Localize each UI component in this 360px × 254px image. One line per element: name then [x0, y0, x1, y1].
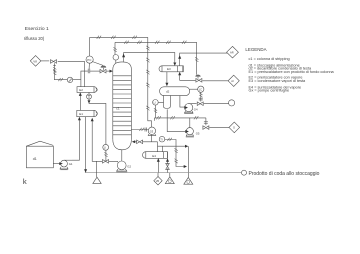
wire line B drop to CW valve — [196, 42, 198, 74]
drain triangle feed area — [93, 177, 193, 184]
tank d1 — [26, 141, 53, 168]
wire E4 riser to steam line — [157, 142, 159, 152]
svg-text:riflusso 20): riflusso 20) — [24, 36, 45, 41]
arrow CW return up — [178, 55, 181, 59]
arrow second riser into E4 — [166, 158, 169, 162]
diamond V8 — [30, 56, 41, 67]
arrow vapor into E3 — [173, 63, 176, 66]
wire V8 branch down — [54, 63, 67, 79]
slash V8 branch 1b — [53, 71, 56, 75]
wire column bottom to G2 — [121, 150, 123, 161]
svg-text:d1: d1 — [33, 157, 37, 161]
wire CW return E3 to AR diamond — [180, 53, 228, 66]
arrow condensate corner — [185, 145, 188, 148]
svg-text:G3: G3 — [150, 129, 154, 133]
diamond AI cooling water — [228, 75, 239, 86]
slash drop 5 — [146, 106, 149, 110]
wire boot to G5 suction — [167, 109, 186, 131]
svg-text:LI: LI — [104, 146, 106, 149]
pump G4 — [184, 104, 193, 114]
wire drain branch feed — [96, 161, 98, 177]
wire d2 to LC — [190, 88, 198, 90]
valve top product — [197, 102, 203, 106]
wire valve to G diamond — [209, 127, 229, 129]
valve steam line — [137, 140, 143, 144]
svg-text:G2: G2 — [127, 164, 131, 168]
arrow TI signal end — [184, 165, 187, 168]
slash line B 1 — [124, 41, 128, 44]
arrow steam into column — [132, 140, 135, 143]
wire header drop to valve — [205, 118, 207, 125]
svg-text:AI: AI — [231, 79, 234, 83]
svg-text:E2: E2 — [79, 88, 83, 92]
wire G3 suction from column — [131, 129, 148, 131]
slash header 1 — [156, 116, 160, 119]
control valve feed — [100, 69, 106, 73]
wire header y118 — [154, 117, 206, 119]
wire signal line A — [90, 36, 148, 38]
wire valve to E1 riser — [92, 121, 102, 161]
arrow trap down — [88, 100, 91, 103]
wire G2 discharge — [109, 160, 118, 163]
slash TI drop 1 — [175, 148, 178, 152]
wire LC drop — [200, 92, 202, 101]
slash G3 suction — [139, 128, 143, 131]
wire G1 discharge to E1 — [72, 120, 79, 161]
instrument LI boot — [153, 100, 164, 106]
slash LI drop — [104, 152, 107, 156]
wire PC down to orifice — [88, 63, 90, 69]
exchanger E2 — [77, 87, 97, 93]
wire E1 to E2 feed riser — [79, 95, 81, 110]
decanter d2 — [160, 87, 190, 109]
slash LC drop — [199, 93, 202, 97]
wire valve to connector circle — [204, 103, 229, 105]
wire steam into column — [135, 141, 158, 143]
wire orifice to control valve — [90, 70, 100, 72]
wire signal line B — [115, 41, 197, 43]
wire boot LI drop — [154, 105, 156, 118]
valve bottoms recycle — [103, 160, 109, 164]
valve CW supply — [196, 79, 202, 83]
svg-text:G5: G5 — [196, 132, 200, 136]
svg-text:Prodotto di coda allo stoccagg: Prodotto di coda allo stoccaggio — [249, 171, 320, 177]
tick V8 branch — [53, 65, 56, 67]
svg-text:c1: c1 — [116, 107, 120, 111]
svg-text:E3: E3 — [167, 67, 171, 71]
wire G4 discharge line — [189, 103, 197, 105]
wire signal drop right of column — [148, 37, 152, 127]
svg-text:LC: LC — [199, 88, 202, 91]
wire second riser to E4 — [167, 160, 169, 173]
slash drop 4 — [146, 83, 149, 87]
wire CW valve to E3 bottom — [180, 75, 196, 81]
steam trap E2 — [87, 92, 92, 99]
valve to G diamond — [203, 126, 209, 130]
slash line B drop — [195, 57, 198, 61]
arrow steam into E4 — [157, 158, 160, 162]
wire E1 outlet down — [85, 117, 87, 170]
slash header 3 — [194, 116, 198, 119]
wire G5 discharge riser — [189, 118, 191, 128]
svg-text:G: G — [233, 126, 235, 130]
svg-text:PC: PC — [87, 58, 92, 62]
instrument PT column top — [67, 55, 204, 151]
drain triangle condensate right — [184, 177, 193, 184]
slash drop 1 — [146, 46, 149, 50]
slash V8 branch 2 — [58, 78, 62, 81]
wire LI drop to valve — [105, 150, 107, 161]
wire TI signal — [165, 140, 184, 167]
wire VR diamond stub — [158, 173, 188, 178]
wire feed riser E2 to feed line — [81, 71, 88, 87]
wire PT riser — [114, 42, 116, 54]
pump G5 — [185, 128, 194, 137]
wire trap condensate — [89, 99, 106, 144]
arrow G1 feed into E1 — [78, 117, 81, 121]
flanges header drop — [204, 122, 208, 124]
svg-text:G1: G1 — [69, 162, 73, 166]
slash line A 1 — [97, 36, 101, 39]
arrow E1 outlet to bottoms line — [84, 169, 87, 173]
wire bottoms line — [85, 172, 242, 174]
pump G1 — [59, 160, 72, 170]
pump G3 — [148, 127, 156, 135]
svg-text:Esercizio 1: Esercizio 1 — [25, 26, 49, 32]
column c1 shell — [113, 62, 132, 150]
wire d2 outlet to G4 — [180, 96, 185, 108]
svg-text:E4: E4 — [152, 154, 156, 158]
instrument PC — [86, 56, 93, 63]
slash PT riser — [114, 47, 117, 51]
diamond AR top right — [227, 46, 239, 58]
arrow vapor up — [122, 54, 125, 58]
arrow into d2 — [165, 83, 168, 87]
svg-text:TI: TI — [160, 137, 163, 141]
wire valve to corner — [58, 61, 85, 86]
svg-text:VR: VR — [156, 180, 160, 183]
column trays — [113, 76, 132, 135]
wire tank outlet to G1 — [53, 163, 59, 165]
slash boot LI drop — [154, 108, 157, 112]
svg-text:c1 = colonna di stripping: c1 = colonna di stripping — [249, 57, 290, 61]
svg-text:d2: d2 — [166, 89, 170, 93]
wire CW supply diamond to valve — [202, 80, 228, 82]
slash line B 5 — [182, 41, 186, 44]
slash line A 3 — [132, 36, 136, 39]
valve V8 line — [51, 60, 57, 64]
arrow into E1 right — [91, 118, 94, 122]
wire G3 discharge to header — [153, 118, 155, 121]
slash line B 4 — [166, 41, 170, 44]
signal PC to actuator — [93, 62, 103, 66]
wire FI to feed riser — [73, 79, 81, 81]
connector circle top product — [154, 100, 247, 185]
slash TI signal h — [167, 138, 171, 141]
svg-text:G4: G4 — [194, 108, 198, 112]
slash TI drop 2 — [175, 159, 178, 163]
instrument TI E4 — [159, 136, 165, 142]
exchanger E1 — [77, 110, 98, 116]
valve second riser — [166, 163, 170, 169]
actuator CW valve — [195, 75, 200, 77]
instrument FI feed — [67, 77, 72, 82]
wire G3 down to steam line — [151, 135, 153, 142]
svg-text:E1 = preriscaldatore con prodo: E1 = preriscaldatore con prodotto di fon… — [249, 70, 335, 74]
slash V8 branch 1 — [53, 67, 56, 71]
slash drop 3 — [146, 70, 149, 74]
slash header 2 — [170, 116, 174, 119]
wire steam riser VR to E4 — [157, 160, 159, 173]
slash line B 3 — [155, 41, 159, 44]
wire PC up — [89, 37, 91, 56]
slash drop 2 — [146, 58, 149, 62]
svg-text:E1: E1 — [79, 112, 83, 116]
superheater E4 — [143, 152, 168, 159]
svg-text:AR: AR — [230, 51, 234, 55]
wire valve to column feed nozzle — [106, 70, 109, 72]
pump G2 — [116, 161, 127, 172]
connector circle bottoms product — [242, 170, 247, 175]
arrow feed into column — [110, 70, 113, 73]
slash line B 2 — [137, 41, 141, 44]
svg-text:LI: LI — [154, 101, 156, 104]
slash line A 2 — [111, 36, 115, 39]
wire V8 feed line — [41, 36, 242, 178]
wire E4 stub and condensate line — [158, 146, 186, 152]
condenser E3 — [159, 66, 183, 72]
wire overhead vapor — [124, 53, 175, 64]
instrument LI column bottom — [103, 144, 109, 150]
arrow CW into E3 — [178, 72, 181, 76]
svg-text:V8: V8 — [33, 59, 37, 63]
arrow feed into E2 — [79, 92, 82, 96]
instrument LC d2 — [198, 86, 204, 92]
svg-text:k: k — [23, 177, 27, 186]
drain triangle condensate E4 — [165, 177, 174, 184]
flanges LC drop — [199, 98, 203, 100]
wire condensate drop — [187, 146, 189, 173]
orifice flanges feed — [88, 69, 90, 73]
actuator control valve feed — [101, 66, 107, 68]
svg-text:E3 = condensatore vapori di te: E3 = condensatore vapori di testa — [249, 79, 307, 83]
diamond G bottom right — [229, 122, 240, 133]
svg-text:Gx = pompe centrifughe: Gx = pompe centrifughe — [249, 89, 290, 93]
diamond VR steam — [154, 177, 162, 185]
flanges G3 suction — [145, 128, 147, 132]
svg-text:LEGENDA: LEGENDA — [245, 47, 266, 52]
wire E3 to d2 — [166, 72, 168, 84]
